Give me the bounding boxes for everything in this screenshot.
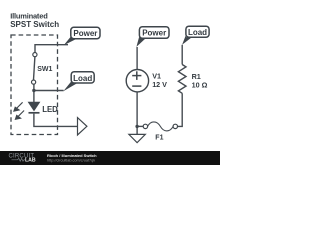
svg-text:Load: Load [73, 74, 92, 83]
svg-text:Power: Power [73, 29, 97, 38]
svg-text:Load: Load [188, 28, 207, 37]
svg-text:Power: Power [142, 29, 166, 38]
svg-text:12 V: 12 V [152, 80, 167, 89]
svg-text:SPST Switch: SPST Switch [10, 20, 59, 29]
svg-text:10 Ω: 10 Ω [192, 81, 208, 90]
svg-text:http://circuitlab.com/c/uat7qk: http://circuitlab.com/c/uat7qk [47, 158, 95, 162]
svg-text:LAB: LAB [25, 158, 36, 164]
svg-text:Ricoh / Illuminated Switch: Ricoh / Illuminated Switch [47, 153, 97, 158]
svg-text:F1: F1 [155, 134, 163, 141]
svg-text:LED: LED [42, 105, 58, 114]
svg-text:SW1: SW1 [37, 66, 52, 73]
